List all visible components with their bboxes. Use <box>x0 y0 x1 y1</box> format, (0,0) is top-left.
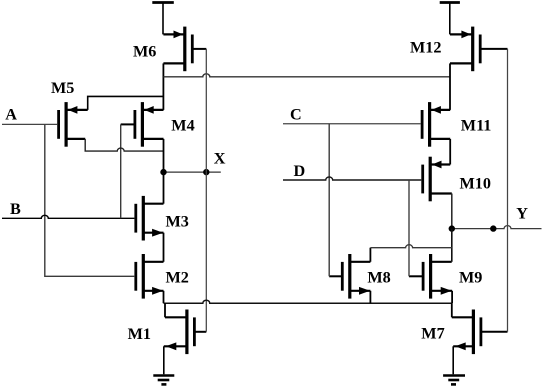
transistor M12 (PMOS) <box>450 27 480 72</box>
svg-text:M10: M10 <box>460 175 491 193</box>
svg-text:M11: M11 <box>461 117 492 135</box>
svg-text:M12: M12 <box>410 38 441 56</box>
label M9 <box>459 269 482 287</box>
transistor M2 (NMOS) <box>136 254 164 299</box>
transistor M5 (PMOS) <box>59 102 88 147</box>
svg-text:M6: M6 <box>133 42 156 60</box>
svg-text:M9: M9 <box>459 269 482 287</box>
wire M9 source down <box>451 291 453 303</box>
label B <box>10 200 21 218</box>
vdd symbol left <box>152 3 174 35</box>
label M4 <box>171 117 194 135</box>
label M10 <box>460 175 491 193</box>
label Y <box>516 205 528 223</box>
transistor M8 (NMOS) <box>342 254 370 299</box>
wire M5 drain to X (hops over B-M4 line) <box>85 139 163 151</box>
node X wire <box>164 171 221 173</box>
junction dot Y left <box>449 225 455 231</box>
wire M6 drain down to M4/M5 sources <box>162 63 164 110</box>
wire M5/M4 source tie <box>88 96 164 110</box>
wire M1 drain up <box>164 303 166 317</box>
label M5 <box>51 79 74 97</box>
svg-text:M4: M4 <box>171 117 194 135</box>
wire M4 drain / M3 drain vertical at node X <box>163 139 165 204</box>
wire Y feedback vertical M12 gate to M7 gate <box>507 49 509 332</box>
wire M12 drain down to M11 source <box>449 63 451 110</box>
wire B to M4 gate <box>120 124 122 218</box>
transistor M4 (PMOS) <box>135 102 164 147</box>
wire M8 source down <box>369 291 371 303</box>
junction dot X left <box>160 169 166 175</box>
svg-text:M7: M7 <box>421 325 444 343</box>
wire M7 drain up <box>451 303 453 317</box>
junction dot X right <box>203 169 209 175</box>
svg-text:A: A <box>5 106 17 124</box>
label M6 <box>133 42 156 60</box>
transistor M9 (NMOS) <box>423 254 452 299</box>
label M3 <box>166 212 189 230</box>
label X <box>214 149 226 167</box>
label M8 <box>367 269 390 287</box>
transistor M6 (PMOS) <box>163 27 192 72</box>
wire input B (hops over A line) <box>2 215 134 218</box>
wire C to M8 gate <box>328 124 330 276</box>
svg-text:B: B <box>10 200 21 218</box>
svg-text:Y: Y <box>516 205 528 223</box>
svg-text:M2: M2 <box>166 268 189 286</box>
label M12 <box>410 38 441 56</box>
label M11 <box>461 117 492 135</box>
transistor M10 (PMOS) <box>423 157 452 202</box>
label C <box>290 105 302 123</box>
wire D to M9 gate <box>408 180 410 276</box>
label M7 <box>421 325 444 343</box>
ground symbol right <box>443 346 465 384</box>
wire M2 source down <box>163 291 165 303</box>
gate stub M1 <box>194 331 206 333</box>
transistor M1 (NMOS) <box>164 310 195 355</box>
svg-text:X: X <box>214 149 226 167</box>
junction dot Y right <box>490 225 496 231</box>
svg-text:C: C <box>290 105 302 123</box>
label M1 <box>128 325 151 343</box>
wire upper rail (hops over X line) <box>163 74 450 77</box>
wire M11 drain to M10 source <box>449 139 451 165</box>
label D <box>294 162 306 180</box>
wire M8 drain to Y (hops over D line) <box>370 245 451 262</box>
wire input C <box>283 123 421 125</box>
svg-text:M5: M5 <box>51 79 74 97</box>
node Y wire (hops over M12-M7 gate line) <box>452 226 542 229</box>
ground symbol left <box>153 346 174 384</box>
wire input D (hops over C line) <box>283 177 421 180</box>
gate stub M4 <box>121 123 135 125</box>
gate stub M6 <box>192 48 206 50</box>
svg-text:M3: M3 <box>166 212 189 230</box>
svg-text:D: D <box>294 162 306 180</box>
gate stub M9 <box>409 275 423 277</box>
wire X feedback vertical M6 gate to M1 gate <box>205 49 207 332</box>
transistor M11 (PMOS) <box>422 102 450 147</box>
gate stub M8 <box>329 275 342 277</box>
wire M3 source to M2 drain <box>163 233 165 262</box>
svg-text:M1: M1 <box>128 325 151 343</box>
wire Y down to M9 drain <box>451 229 453 262</box>
gate stub M12 <box>480 48 507 50</box>
wire input A <box>2 123 57 125</box>
svg-text:M8: M8 <box>367 269 390 287</box>
label M2 <box>166 268 189 286</box>
wire M10 drain down to node Y <box>451 194 453 229</box>
wire A to M2 gate <box>45 124 135 276</box>
transistor M3 (NMOS) <box>136 196 164 241</box>
wire lower rail (hops over X line) <box>164 300 453 303</box>
gate stub M7 <box>481 331 508 333</box>
vdd symbol right <box>440 3 460 35</box>
label A <box>5 106 17 124</box>
transistor M7 (NMOS) <box>452 310 481 355</box>
